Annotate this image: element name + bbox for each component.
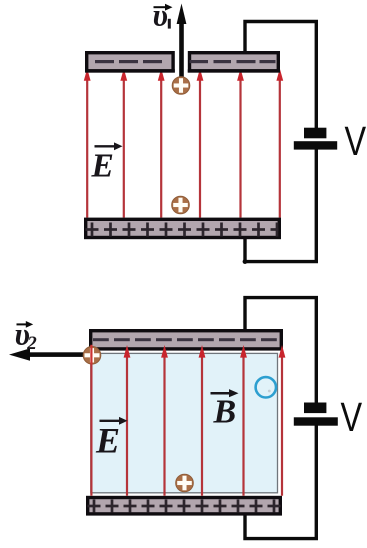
charge q1 at top plate bbox=[172, 77, 190, 95]
svg-text:E: E bbox=[91, 148, 114, 185]
label v2 with vector arrow bbox=[15, 317, 38, 355]
top plate bottom border redraw (over arrow tips) bbox=[85, 69, 175, 72]
top plate (negative plate, bottom figure) bbox=[89, 329, 283, 351]
svg-text:V: V bbox=[341, 395, 363, 440]
plus signs on bottom plate (bottom figure) bbox=[88, 500, 281, 513]
svg-text:E: E bbox=[95, 420, 120, 460]
svg-text:υ: υ bbox=[153, 0, 168, 33]
B-field region (light blue, bottom figure) bbox=[91, 353, 278, 492]
label v1 with vector arrow bbox=[153, 0, 173, 33]
svg-text:B: B bbox=[213, 394, 237, 431]
svg-text:V: V bbox=[345, 119, 367, 164]
field line 2 bbox=[123, 78, 125, 218]
E field lines (bottom figure) with arrowheads bbox=[88, 345, 285, 496]
svg-text:2: 2 bbox=[26, 333, 37, 354]
top plate right segment (negative plate, top figure) bbox=[188, 51, 280, 73]
wire junction dot (bottom-left corner, top figure) bbox=[243, 259, 248, 264]
field line 4 bbox=[201, 355, 203, 496]
field line 1 bbox=[90, 355, 92, 496]
charge q2 mid field bbox=[172, 196, 190, 214]
wire top (top figure, from top plate to battery) bbox=[245, 22, 316, 130]
field line 6 bbox=[279, 78, 281, 218]
field line 5 bbox=[239, 78, 241, 218]
label V (top battery) bbox=[345, 119, 367, 164]
charge q4 near bottom plate (bottom figure) bbox=[176, 474, 194, 492]
wire bottom (top figure, from bottom plate to battery) bbox=[245, 148, 316, 262]
label E (top figure) with vector arrow bbox=[91, 142, 123, 184]
field line 4 bbox=[199, 78, 201, 218]
field line 3 bbox=[160, 78, 162, 218]
field line 1 bbox=[86, 78, 88, 218]
velocity arrow v2 (horizontal, to the left) bbox=[9, 348, 91, 360]
wire top (bottom figure) bbox=[245, 298, 316, 404]
field line 5 bbox=[242, 355, 244, 496]
charge q3 at left edge of top plate (bottom figure) bbox=[83, 347, 101, 365]
minus dashes on top plate bbox=[95, 60, 276, 63]
E field lines (top figure) with arrowheads bbox=[84, 69, 283, 218]
velocity arrow v1 (vertical, through top plate) bbox=[177, 4, 187, 81]
label E (bottom figure) with vector arrow bbox=[95, 417, 128, 460]
battery V1 short thick bar bbox=[304, 128, 326, 139]
bottom plate (positive plate, bottom figure) bbox=[86, 496, 282, 516]
bottom plate (positive plate, top figure) bbox=[84, 218, 281, 240]
label B (magnetic field) with vector arrow bbox=[211, 389, 239, 431]
label V (bottom battery) bbox=[341, 395, 363, 440]
battery V1 long bar bbox=[294, 141, 337, 149]
minus dashes on top plate (bottom figure) bbox=[93, 338, 277, 341]
B out-of-page circle marker bbox=[256, 377, 276, 397]
field line 2 bbox=[126, 355, 128, 496]
battery V2 short thick bar bbox=[304, 403, 326, 414]
battery V2 long bar bbox=[294, 417, 338, 425]
wire bottom (bottom figure) bbox=[245, 424, 316, 539]
field line 3 bbox=[163, 355, 165, 496]
top plate left segment (negative plate, top figure) bbox=[85, 51, 175, 73]
field line 6 bbox=[281, 355, 283, 496]
plus signs on bottom plate bbox=[86, 223, 279, 237]
field line 1 overlay across charge q3 bbox=[90, 345, 92, 365]
